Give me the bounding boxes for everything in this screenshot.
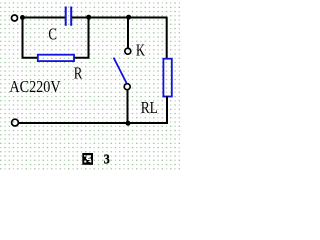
node C (top of switch branch) xyxy=(126,15,131,20)
wire (resistor R1 to right vertical of loop, up to node B) xyxy=(75,18,89,58)
switch K upper contact xyxy=(125,48,131,54)
wire (node A to capacitor left plate) xyxy=(23,17,66,19)
node B (top of R branch) xyxy=(86,15,91,20)
wire (capacitor right plate to node C, top) xyxy=(72,17,168,19)
caption character 图 (drawn) xyxy=(82,153,93,165)
switch K blade (open arm) xyxy=(114,58,128,85)
wire (resistor RL down to bottom wire) xyxy=(166,96,168,123)
node D (bottom of switch branch) xyxy=(126,121,131,126)
svg-text:RL: RL xyxy=(141,98,158,117)
wire (left vertical of R loop) xyxy=(23,18,38,58)
svg-text:K: K xyxy=(136,40,146,59)
terminal T2 (bottom-left input) xyxy=(12,119,19,126)
svg-text:AC220V: AC220V xyxy=(9,77,61,96)
wire (switch lower contact down to node D) xyxy=(127,90,129,123)
resistor R1 body xyxy=(38,55,74,61)
resistor RL body xyxy=(163,59,171,97)
capacitor C1 plates xyxy=(65,7,67,26)
svg-text:C: C xyxy=(48,24,57,43)
svg-text:3: 3 xyxy=(104,152,110,167)
terminal T1 (top-left input) xyxy=(12,15,18,21)
wire (bottom rail) xyxy=(19,122,168,124)
wire (right vertical: top corner down to resistor RL) xyxy=(166,18,168,59)
node A (top-left junction) xyxy=(20,15,25,20)
switch K lower contact xyxy=(124,84,130,90)
svg-text:R: R xyxy=(74,64,83,83)
wire (node C down to switch upper contact) xyxy=(127,18,129,48)
